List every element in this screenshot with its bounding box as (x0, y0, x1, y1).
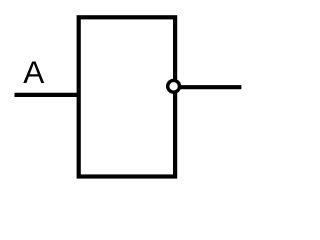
svg-text:A: A (23, 54, 44, 90)
